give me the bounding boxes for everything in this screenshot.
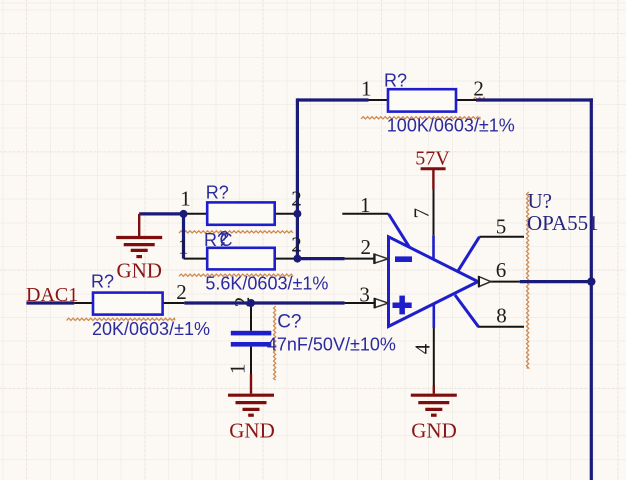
svg-text:2: 2 — [176, 280, 187, 304]
svg-text:R?: R? — [206, 182, 229, 202]
svg-text:5: 5 — [496, 215, 507, 239]
svg-text:47nF/50V/±10%: 47nF/50V/±10% — [267, 335, 396, 355]
pin leads black — [74, 100, 524, 385]
svg-text:5.6K/0603/±1%: 5.6K/0603/±1% — [205, 274, 328, 294]
op-amp pin 8 diagonal — [455, 295, 479, 327]
wire inverting input — [297, 257, 344, 260]
vertical squiggle at U1 pins — [527, 192, 529, 368]
ground GND2 stub — [250, 374, 252, 394]
op-amp plus symbol — [393, 303, 412, 309]
squiggle under resistor R4 — [67, 318, 176, 320]
op-amp pin 5 diagonal — [458, 237, 479, 271]
compile-error squiggle under R1 value — [361, 117, 480, 119]
junction node A — [180, 210, 188, 218]
power stubs dark red — [139, 170, 434, 394]
svg-text:GND: GND — [229, 418, 275, 442]
resistor R1 body — [388, 89, 456, 111]
resistor R3 body — [207, 248, 275, 270]
svg-text:1: 1 — [226, 364, 250, 375]
wire R4 to op-amp pin 3 — [184, 301, 344, 304]
vertical squiggle at capacitor C1 — [274, 306, 276, 380]
junction C1 top — [247, 299, 255, 307]
svg-text:3: 3 — [359, 283, 370, 307]
op-amp pin 5 lead — [479, 236, 524, 238]
pin 2 lead of R3 — [273, 258, 297, 260]
op-amp pin 7 blue segment — [432, 235, 435, 260]
op-amp pin 1 lead — [342, 213, 388, 215]
junction R2 pin2 — [293, 210, 301, 218]
capacitor C1 pin 2 lead — [250, 303, 252, 331]
op-amp pin 2 lead — [345, 258, 375, 260]
svg-text:100K/0603/±1%: 100K/0603/±1% — [387, 115, 515, 135]
svg-text:C?: C? — [277, 311, 301, 332]
ground GND3 symbol — [411, 395, 457, 415]
junction R3 pin2 — [293, 255, 301, 263]
svg-text:1: 1 — [180, 187, 191, 211]
svg-text:U?: U? — [528, 189, 553, 213]
ground GND2 symbol — [228, 395, 274, 415]
capacitor C1 plates — [231, 331, 271, 347]
junction output — [587, 277, 595, 285]
input arrow pin 2 — [374, 254, 388, 264]
svg-text:1: 1 — [361, 77, 372, 101]
pin 1 lead of R3 — [184, 258, 210, 260]
ground GND3 stub — [433, 385, 435, 394]
svg-text:2: 2 — [473, 77, 484, 101]
output arrow pin 6 — [479, 276, 491, 287]
op-amp pin 4 blue segment — [432, 304, 435, 328]
op-amp pin 6 lead — [490, 281, 520, 283]
power 57V bar — [421, 167, 446, 170]
op-amp pin 7 lead — [433, 189, 435, 235]
svg-text:?: ? — [219, 228, 229, 248]
op-amp pin 3 lead — [345, 302, 375, 304]
wire output right vertical — [590, 98, 593, 480]
pin 2 lead of R4 — [162, 302, 185, 304]
op-amp pin 1 diagonal — [389, 214, 410, 247]
squiggle under resistor R3 — [179, 274, 293, 276]
svg-text:1: 1 — [178, 235, 189, 259]
pin 1 lead of R2 — [184, 213, 210, 215]
wire feedback top — [297, 98, 593, 101]
ground GND1 stub — [138, 214, 140, 237]
svg-text:4: 4 — [411, 343, 435, 354]
op-amp U1 triangle — [389, 237, 479, 327]
svg-text:GND: GND — [411, 418, 457, 442]
ground GND1 symbol — [116, 238, 162, 257]
wire feedback left vertical — [296, 98, 299, 258]
svg-text:DAC1: DAC1 — [26, 284, 78, 306]
svg-text:20K/0603/±1%: 20K/0603/±1% — [92, 319, 210, 339]
svg-text:2: 2 — [291, 187, 302, 211]
pin 1 lead of R1 — [369, 99, 391, 101]
svg-text:2: 2 — [291, 233, 302, 257]
svg-text:7: 7 — [410, 208, 434, 219]
pin 2 lead of R1 — [454, 99, 476, 101]
resistor R4 body — [93, 293, 163, 315]
resistor R2 body — [207, 202, 275, 224]
svg-text:GND: GND — [116, 259, 162, 283]
svg-text:8: 8 — [496, 304, 507, 328]
pin 1 lead of R4 — [74, 302, 94, 304]
svg-text:57V: 57V — [415, 148, 450, 170]
svg-text:1: 1 — [360, 193, 371, 217]
input arrow pin 3 — [375, 298, 389, 308]
op-amp minus symbol — [395, 256, 412, 262]
svg-text:OPA551: OPA551 — [527, 211, 599, 235]
wire node A vertical — [182, 214, 185, 259]
svg-text:2: 2 — [361, 235, 372, 259]
capacitor C1 pin 1 lead — [250, 347, 252, 374]
squiggle under pin2 label of R1 — [473, 98, 485, 100]
wire DAC1 to R4 — [26, 301, 74, 304]
squiggle under resistor R2 — [179, 231, 293, 233]
op-amp pin 4 lead — [433, 328, 435, 385]
wire output to right vertical — [520, 280, 592, 283]
svg-text:R?: R? — [384, 70, 407, 90]
pin 2 lead of R2 — [273, 213, 297, 215]
op-amp pin 8 lead — [478, 326, 524, 328]
svg-text:R?: R? — [91, 271, 114, 291]
svg-text:6: 6 — [496, 258, 507, 282]
power 57V stub — [432, 170, 434, 190]
wire GND1 to node A — [139, 212, 183, 215]
